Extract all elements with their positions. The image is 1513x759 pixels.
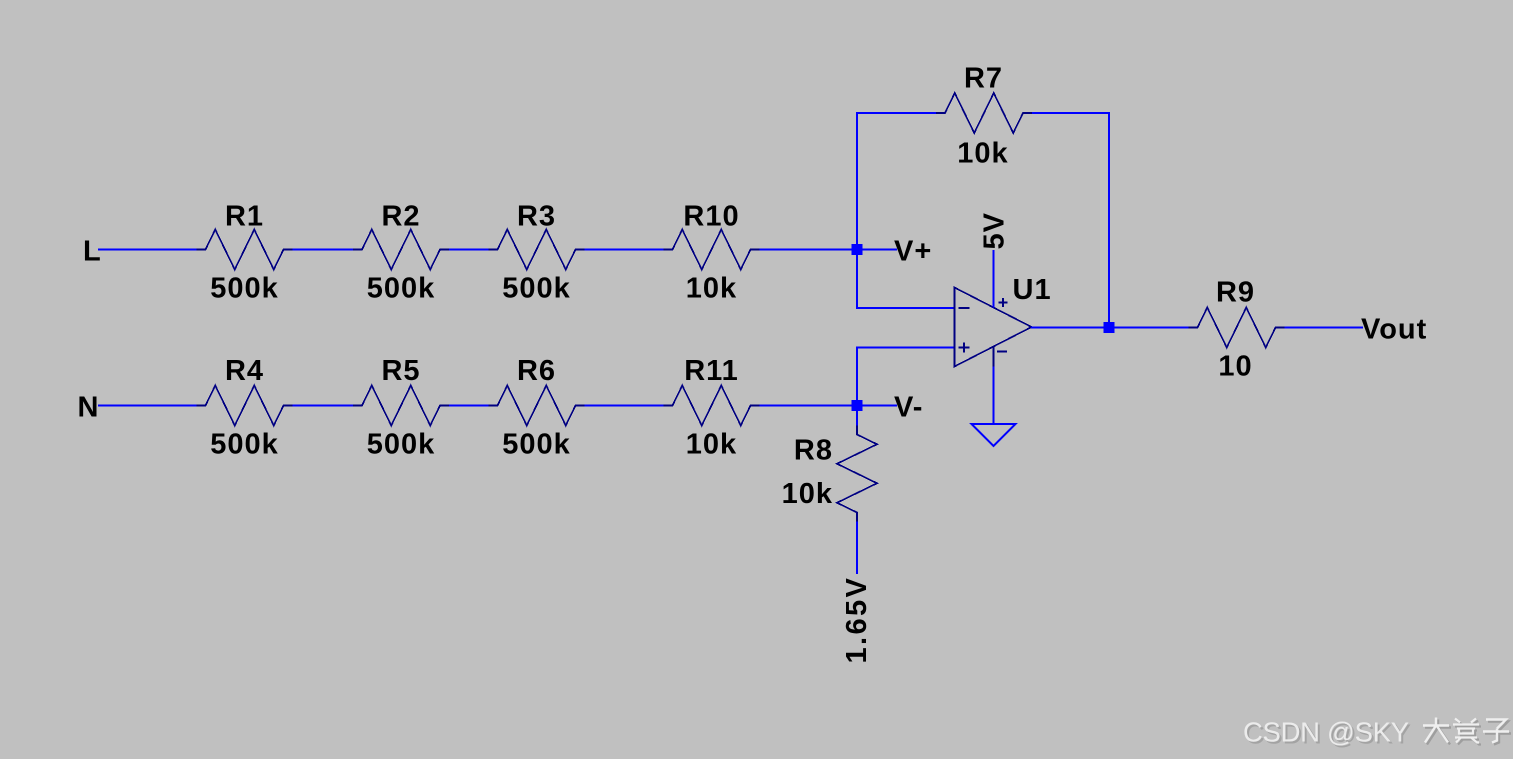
svg-text:500k: 500k [367,273,436,305]
svg-text:R4: R4 [225,355,264,387]
svg-text:V-: V- [894,392,923,424]
resistor R10 [664,230,760,270]
svg-text:10k: 10k [957,138,1008,170]
watermark text CSDN @SKY [1243,717,1411,750]
junction node V+ [852,244,863,255]
wire R6 to R11 [585,405,664,407]
resistor R8 [837,426,877,522]
wire op-amp output to output node [1031,327,1104,329]
resistor R3 [489,230,585,270]
wire R2 to R3 [449,249,489,251]
svg-text:500k: 500k [367,429,436,461]
junction output node [1104,322,1115,333]
wire R3 to R10 [585,249,664,251]
ground symbol [972,424,1016,446]
wire R11 to node V- [760,405,852,407]
resistor R11 [664,386,760,426]
svg-text:R5: R5 [381,355,420,387]
wire stub node V+ to label [863,249,898,251]
svg-text:R1: R1 [225,201,264,233]
wire stub node V- to label [863,405,898,407]
wire node V- down to R8 [856,411,858,426]
svg-text:500k: 500k [210,429,279,461]
resistor R9 [1189,308,1285,348]
resistor R6 [489,386,585,426]
svg-text:R11: R11 [684,355,739,387]
svg-text:R6: R6 [517,355,556,387]
svg-text:500k: 500k [502,273,571,305]
svg-text:10: 10 [1218,351,1252,383]
wire op-amp bottom pin to ground [993,367,995,424]
resistor R2 [353,230,449,270]
svg-text:Vout: Vout [1361,314,1427,346]
resistor R7 [936,93,1032,133]
wire 5V supply to op-amp top pin [993,250,995,308]
wire N to R4 [98,405,197,407]
op-amp U1 bottom pin stub [993,347,995,367]
svg-text:R10: R10 [683,201,739,233]
op-amp U1 positive supply pin mark (+) [999,298,1008,307]
op-amp U1 body [955,288,1032,367]
svg-text:U1: U1 [1013,274,1052,306]
wire node V+ to op-amp inverting input [857,255,954,308]
svg-text:L: L [83,236,102,268]
svg-text:500k: 500k [502,429,571,461]
svg-text:N: N [78,392,100,424]
wire output node to R9 [1115,327,1189,329]
wire R7 right-down to output node [1032,113,1109,322]
op-amp U1 non-inverting input mark (+) [959,343,970,353]
wire R4 to R5 [293,405,354,407]
svg-text:10k: 10k [782,478,833,510]
resistor R5 [353,386,449,426]
wire R9 to Vout [1285,327,1364,329]
svg-text:R2: R2 [381,201,420,233]
wire R1 to R2 [293,249,354,251]
svg-text:R7: R7 [964,63,1003,95]
svg-text:5V: 5V [979,212,1011,249]
resistor R4 [197,386,293,426]
op-amp U1 negative supply pin mark (-) [997,351,1007,353]
op-amp U1 inverting input mark (-) [959,307,970,309]
svg-text:10k: 10k [686,429,737,461]
wire L to R1 [98,249,197,251]
svg-text:10k: 10k [686,273,737,305]
svg-text:500k: 500k [210,273,279,305]
svg-text:R8: R8 [794,435,833,467]
watermark CJK glyphs [1425,720,1511,745]
wire R5 to R6 [449,405,489,407]
svg-text:CSDN @SKY: CSDN @SKY [1243,717,1409,748]
svg-text:R3: R3 [517,201,556,233]
wire R10 to node V+ [760,249,852,251]
svg-text:V+: V+ [894,236,932,268]
wire R8 to 1.65V source [856,522,858,575]
junction node V- [852,400,863,411]
wire node V- to op-amp non-inverting input [857,348,954,401]
wire node V+ up-left to R7 [857,113,936,244]
resistor R1 [197,230,293,270]
svg-text:R9: R9 [1216,277,1255,309]
svg-text:1.65V: 1.65V [841,576,873,664]
